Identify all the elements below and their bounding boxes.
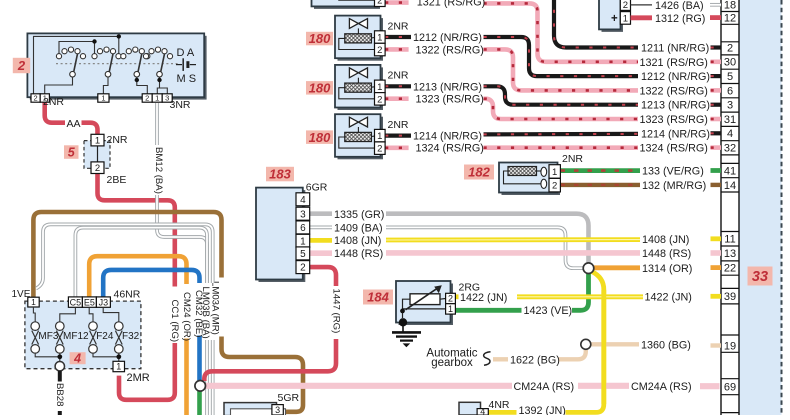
svg-text:C5: C5 [70, 297, 82, 307]
svg-text:2: 2 [377, 144, 382, 155]
svg-text:2: 2 [377, 0, 382, 7]
wire 1214 (NR/RG) injector4 pin1 -> pin 4 [385, 134, 411, 138]
wire LM03A (MR) brown: 1VE -> 5GR pin 3 [33, 212, 221, 298]
junction dot F32 [116, 354, 121, 359]
svg-text:18: 18 [724, 0, 736, 12]
wire 1321 (RS/RG) injector1 pin2 -> pin 30 [385, 0, 409, 5]
svg-text:1321 (RS/RG): 1321 (RS/RG) [640, 57, 708, 69]
svg-text:1: 1 [155, 94, 159, 103]
svg-text:1: 1 [377, 32, 382, 43]
svg-text:6: 6 [727, 85, 733, 97]
wire CM24A (RS) [206, 383, 512, 389]
pin 2 injector 2 [375, 43, 386, 56]
valve symbol injector 3 [349, 68, 367, 78]
internal wire injector 3 [339, 88, 375, 99]
svg-text:2BE: 2BE [107, 174, 127, 186]
wire BB28 (NR) [58, 371, 62, 382]
svg-text:MF12: MF12 [63, 331, 89, 342]
svg-text:1214 (NR/RG): 1214 (NR/RG) [641, 128, 710, 140]
svg-text:BM12 (BA): BM12 (BA) [153, 147, 164, 194]
svg-text:1: 1 [448, 304, 453, 314]
svg-text:4: 4 [480, 406, 485, 415]
coil injector 4 [345, 132, 372, 141]
svg-text:3: 3 [300, 209, 306, 220]
svg-text:1: 1 [116, 362, 121, 372]
svg-text:5: 5 [727, 71, 733, 83]
comp2 bottom routing [45, 77, 73, 94]
svg-text:1314 (OR): 1314 (OR) [642, 263, 692, 275]
coil injector 3 [345, 83, 372, 92]
component 5GR box (bottom) [224, 403, 277, 416]
svg-text:2: 2 [95, 163, 100, 174]
svg-text:1: 1 [95, 136, 100, 147]
pin 1 (182) [549, 165, 560, 179]
wire 1212 (NR/RG) injector2 pin1 -> pin 5 [385, 35, 411, 39]
svg-text:1422 (JN): 1422 (JN) [460, 292, 507, 304]
component label 2 [13, 58, 30, 73]
svg-text:6: 6 [300, 223, 306, 234]
wire 1448 (RS) [310, 250, 332, 256]
wire 1408 (JN) [310, 238, 332, 243]
fuse top link wires [33, 307, 35, 322]
junction dot 184 [400, 309, 405, 314]
svg-text:3: 3 [727, 100, 733, 112]
pins 2|1|3 (3NR) [142, 94, 152, 102]
internal wire injector 1 [339, 0, 375, 1]
wire 1312 (RG) [631, 15, 653, 20]
svg-text:2NR: 2NR [388, 70, 409, 82]
svg-text:30: 30 [724, 57, 736, 69]
squiggle symbol [484, 352, 491, 365]
wire CC1 (RG): comp5 pin2 -> fuse box 2MR [98, 174, 175, 287]
svg-text:2NR: 2NR [388, 119, 409, 131]
component label 4 [70, 352, 86, 364]
svg-text:180: 180 [309, 130, 331, 145]
svg-text:1409 (BA): 1409 (BA) [334, 223, 383, 235]
wire 132 (MR/RG) [561, 183, 641, 187]
svg-text:1447 (RG): 1447 (RG) [330, 289, 341, 334]
svg-text:2: 2 [145, 94, 149, 103]
wire 1360 (BG) [591, 342, 639, 346]
internal wiring 182 [504, 171, 541, 184]
svg-text:4: 4 [300, 195, 306, 206]
svg-text:6GR: 6GR [306, 182, 328, 194]
svg-text:3: 3 [275, 405, 280, 415]
svg-text:1360 (BG): 1360 (BG) [641, 339, 691, 351]
svg-text:E5: E5 [84, 297, 95, 307]
pin 1 (184) [446, 304, 456, 314]
splice circle bottom of fuse box [55, 362, 64, 371]
svg-text:1: 1 [623, 13, 628, 24]
pin 2 (184) [446, 293, 456, 303]
svg-text:46NR: 46NR [114, 289, 141, 301]
svg-text:1423 (VE): 1423 (VE) [524, 305, 573, 317]
wire 1409 (BA) [310, 226, 332, 230]
svg-text:2: 2 [623, 0, 628, 11]
component label 180 #4 [306, 130, 333, 144]
injector 180 #4 [338, 117, 384, 160]
svg-text:1408 (JN): 1408 (JN) [334, 235, 381, 247]
svg-text:1392 (JN): 1392 (JN) [519, 405, 566, 415]
switch group 1 (comp 2) [56, 47, 85, 77]
wire 1392 vertical overlay [601, 290, 606, 404]
component label 182 [464, 165, 494, 180]
svg-text:2: 2 [17, 58, 26, 73]
pin 3 (183) [296, 207, 310, 220]
pin 1 injector 4 [375, 129, 386, 142]
contact 2 (182) [541, 179, 547, 188]
wire 1426 (BA) [631, 4, 653, 6]
svg-text:D A: D A [177, 47, 195, 59]
svg-text:1213 (NR/RG): 1213 (NR/RG) [641, 100, 710, 112]
component 5 (connector) [84, 141, 110, 169]
injector 180 #1 [314, 0, 380, 9]
svg-text:39: 39 [724, 291, 736, 303]
svg-text:1323 (RS/RG): 1323 (RS/RG) [640, 114, 708, 126]
fuse MF3 [31, 322, 40, 353]
component label 184 [363, 290, 393, 305]
wire white C5 branch [75, 228, 207, 297]
svg-text:CC1 (RG): CC1 (RG) [169, 300, 180, 343]
svg-text:1213 (NR/RG): 1213 (NR/RG) [413, 81, 482, 93]
svg-text:133 (VE/RG): 133 (VE/RG) [642, 166, 704, 178]
svg-text:1426 (BA): 1426 (BA) [655, 0, 704, 12]
component 4NR box (bottom) [459, 402, 481, 415]
svg-text:132 (MR/RG): 132 (MR/RG) [642, 180, 706, 192]
svg-text:1: 1 [300, 236, 306, 247]
wire 133 (VE/RG) [561, 168, 641, 173]
junction dot A (comp2) [92, 39, 96, 43]
svg-text:2: 2 [300, 263, 306, 274]
svg-text:1323 (RS/RG): 1323 (RS/RG) [416, 94, 484, 106]
component label 183 [266, 167, 294, 182]
wire green below node2 [197, 391, 202, 415]
wire 1324 (RS/RG) injector4 pin2 -> pin 32 [385, 146, 409, 151]
injector 180 #3 [338, 67, 384, 110]
svg-text:5GR: 5GR [278, 392, 300, 404]
svg-text:1: 1 [377, 82, 382, 93]
pin 3 (5GR) [272, 405, 283, 415]
svg-text:2: 2 [727, 42, 733, 54]
internal wires 184 [403, 299, 411, 318]
component label 5 [64, 145, 79, 159]
svg-text:41: 41 [724, 165, 736, 177]
wire 1622 (BG) [493, 357, 508, 361]
wire 1213 (NR/RG) injector3 pin1 -> pin 3 [385, 84, 411, 88]
svg-text:1211 (NR/RG): 1211 (NR/RG) [641, 43, 709, 55]
svg-text:4: 4 [73, 352, 81, 366]
pin 2 injector 4 [375, 142, 386, 155]
svg-text:184: 184 [367, 290, 389, 305]
pin 1 injector 3 [375, 80, 386, 93]
component 183 box [259, 190, 306, 282]
pin 2 injector 1 [375, 0, 386, 7]
svg-text:1: 1 [377, 131, 382, 142]
valve symbol injector 2 [349, 19, 367, 29]
svg-text:1324 (RS/RG): 1324 (RS/RG) [640, 143, 708, 155]
switch group 4 (comp 2) [143, 47, 172, 77]
pin J3 [96, 297, 110, 307]
svg-text:2: 2 [448, 294, 453, 304]
svg-text:BB28: BB28 [54, 383, 65, 406]
svg-text:1: 1 [552, 167, 557, 178]
fuse box component 4 [25, 301, 141, 369]
pin 1 top-right [620, 12, 630, 25]
svg-text:3NR: 3NR [170, 99, 191, 111]
battery symbol (comp2) [176, 64, 182, 66]
svg-text:4: 4 [727, 128, 733, 140]
wire 1314 (OR) from node1 [593, 265, 640, 270]
variable resistor 184 [410, 294, 440, 305]
svg-text:AA: AA [67, 118, 81, 130]
wire LM03B (BA) white: merges near 1VE, down right side [36, 224, 213, 288]
pin 1 injector 2 [375, 31, 386, 44]
svg-text:1: 1 [31, 297, 36, 307]
svg-text:1322 (RS/RG): 1322 (RS/RG) [416, 44, 484, 56]
svg-text:5: 5 [68, 146, 76, 160]
junction dot MF12 [57, 354, 62, 359]
svg-text:33: 33 [752, 269, 768, 285]
ECU pin column [721, 0, 739, 415]
wire 1422 (JN): 184 pin2 to pin 39 [455, 294, 458, 299]
svg-text:1448 (RS): 1448 (RS) [642, 248, 691, 260]
internal wire injector 2 [339, 38, 375, 49]
svg-text:22: 22 [724, 263, 736, 275]
internal wire injector 4 [339, 137, 375, 148]
contact 1 (182) [541, 167, 547, 176]
svg-text:31: 31 [724, 114, 736, 126]
svg-text:2NR: 2NR [562, 153, 583, 165]
pin 2 (183) [296, 261, 310, 274]
svg-text:2: 2 [377, 45, 382, 56]
svg-text:182: 182 [468, 165, 490, 180]
wire 1447 (RG): 183 pin2 down to red junction rail [310, 267, 336, 286]
svg-text:1448 (RS): 1448 (RS) [334, 248, 383, 260]
pin E5 [82, 297, 96, 307]
svg-text:180: 180 [309, 81, 331, 96]
pin C5 [68, 297, 82, 307]
svg-text:183: 183 [269, 167, 291, 182]
node 3 (beige splice) [581, 339, 591, 349]
svg-text:1: 1 [101, 94, 105, 103]
svg-text:M S: M S [177, 73, 197, 85]
svg-text:2MR: 2MR [127, 372, 150, 384]
pin 6 (183) [296, 221, 310, 234]
coil injector 2 [345, 34, 372, 43]
svg-text:MF3: MF3 [38, 331, 58, 342]
svg-text:1214 (NR/RG): 1214 (NR/RG) [413, 131, 482, 143]
svg-text:12: 12 [724, 13, 736, 25]
wire 1423 (VE): node1 down-left to 184 pin1 [572, 273, 589, 310]
svg-text:gearbox: gearbox [431, 357, 473, 369]
pin 2 injector 3 [375, 93, 386, 106]
wire 1335 (GR) [310, 211, 332, 216]
svg-text:1335 (GR): 1335 (GR) [334, 209, 384, 221]
svg-text:2NR: 2NR [107, 134, 128, 146]
svg-text:1422 (JN): 1422 (JN) [645, 292, 692, 304]
node 2 (splice) [195, 381, 206, 392]
svg-text:2RG: 2RG [459, 281, 481, 293]
svg-text:CM32 (BE): CM32 (BE) [193, 290, 204, 337]
node 1 (splice) [583, 263, 594, 274]
fuse bottom links [35, 353, 60, 357]
svg-text:1324 (RS/RG): 1324 (RS/RG) [416, 143, 484, 155]
pin 1 (1VE) [28, 297, 39, 307]
svg-text:32: 32 [724, 143, 736, 155]
svg-text:1622 (BG): 1622 (BG) [510, 354, 560, 366]
svg-text:5: 5 [300, 249, 306, 260]
component label 180 #3 [306, 81, 333, 95]
wire 1392 (JN) yellow vertical: node1 down to 4NR pin4 [566, 272, 604, 413]
wire 1211 (NR/RG) injector1 pin1 -> pin 2 [554, 0, 638, 48]
pin 2 top-right [620, 0, 630, 10]
svg-text:2NR: 2NR [43, 96, 64, 108]
label 33 [748, 267, 773, 286]
svg-text:CM24A (RS): CM24A (RS) [631, 381, 692, 393]
pin 2 (182) [549, 178, 560, 192]
wire AA (red) from switch to comp 5 [45, 102, 65, 123]
pin 5 (183) [296, 247, 310, 260]
pins 2|1 (2NR) [31, 94, 40, 102]
svg-text:+: + [611, 13, 618, 25]
wire CM24 (OR): E5 up over and down [89, 256, 186, 297]
switch group 3 (comp 2) [121, 47, 150, 77]
wire 1322 (RS/RG) injector2 pin2 -> pin 6 [385, 47, 409, 52]
pin 4 (183) [296, 193, 310, 206]
svg-text:CM24 (OR): CM24 (OR) [181, 292, 192, 341]
svg-text:CM24A (RS): CM24A (RS) [514, 381, 575, 393]
component 184 box [399, 284, 454, 326]
injector 180 #2 [338, 18, 384, 61]
svg-text:F32: F32 [122, 331, 140, 342]
svg-text:14: 14 [724, 180, 736, 192]
switch group 2 (comp 2) [92, 47, 121, 77]
svg-text:4NR: 4NR [489, 399, 510, 411]
wire BM12 (BA) from switch pin1 3NR [155, 103, 159, 145]
svg-text:2: 2 [34, 94, 38, 103]
ECU connector block 33 (right edge) [740, 0, 782, 415]
pin 1 (2MR) [113, 361, 125, 371]
svg-text:F24: F24 [96, 331, 114, 342]
component 182 box [502, 165, 561, 195]
svg-text:180: 180 [309, 31, 331, 46]
svg-text:13: 13 [724, 248, 736, 260]
pin 2 (comp 5) [91, 162, 104, 174]
svg-text:11: 11 [724, 234, 735, 246]
svg-text:2: 2 [552, 181, 557, 192]
svg-text:1408 (JN): 1408 (JN) [642, 234, 689, 246]
pin 1 (comp 5) [91, 134, 104, 146]
svg-text:1321 (RS/RG): 1321 (RS/RG) [417, 0, 485, 9]
junction dot G4 [157, 78, 161, 82]
component 2 box (wiper switch unit) [30, 36, 207, 100]
valve symbol injector 4 [349, 117, 367, 127]
svg-text:J3: J3 [99, 297, 109, 307]
wire 1323 (RS/RG) injector3 pin2 -> pin 31 [385, 96, 409, 101]
svg-text:1312 (RG): 1312 (RG) [655, 13, 705, 25]
pin 1 (183) [296, 234, 310, 247]
wire CM32 (BE): J3 up over and down to node [103, 270, 199, 297]
pin 4 (4NR) [477, 409, 488, 416]
component top-right (supply unit) [602, 0, 624, 32]
comp2 internal riser wires [34, 36, 119, 93]
fuse F24 [89, 322, 98, 353]
dotted line (comp 2) [56, 63, 179, 65]
svg-text:2NR: 2NR [388, 20, 409, 32]
pin 1 (middle) [98, 94, 109, 102]
fuse MF12 [56, 322, 65, 353]
svg-text:1322 (RS/RG): 1322 (RS/RG) [640, 85, 708, 97]
junction dot at ground 184 [399, 318, 407, 326]
svg-text:69: 69 [724, 382, 736, 394]
coil 182 [508, 167, 537, 176]
svg-text:1212 (NR/RG): 1212 (NR/RG) [641, 71, 710, 83]
ground symbol (184) [402, 325, 404, 332]
fuse F32 [115, 322, 124, 353]
svg-text:2: 2 [377, 94, 382, 105]
junction dot G3 [135, 78, 139, 82]
component label 180 #2 [306, 32, 333, 46]
svg-text:1212 (NR/RG): 1212 (NR/RG) [413, 32, 482, 44]
junction dot B (comp2) [117, 34, 121, 38]
svg-text:19: 19 [724, 340, 736, 352]
